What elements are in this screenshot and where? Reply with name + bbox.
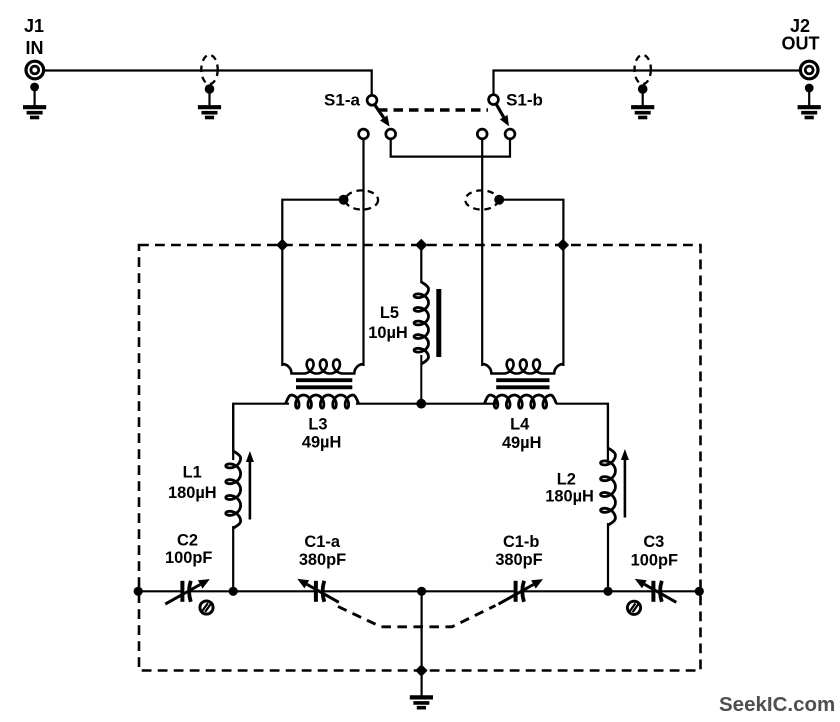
ground under left bead	[205, 84, 215, 94]
junction rail-shield left	[134, 587, 143, 596]
arrow L2	[624, 460, 627, 518]
gang dashes C1	[338, 606, 496, 627]
svg-text:OUT: OUT	[782, 33, 820, 53]
inductor L5	[414, 282, 428, 364]
svg-text:C2: C2	[177, 532, 198, 550]
inductor L2	[607, 404, 609, 449]
svg-text:L3: L3	[308, 415, 327, 433]
svg-text:S1-b: S1-b	[506, 91, 543, 110]
svg-text:380pF: 380pF	[495, 551, 542, 569]
wire J1 to S1-a	[44, 71, 372, 96]
tap wire right	[494, 195, 504, 205]
capacitor C1-b	[516, 588, 522, 594]
connector J2	[800, 61, 818, 79]
feedthrough bead left	[201, 55, 217, 84]
svg-text:J1: J1	[24, 16, 44, 36]
svg-text:S1-a: S1-a	[324, 91, 360, 110]
tap wire left	[339, 195, 349, 205]
svg-text:C1-b: C1-b	[503, 533, 539, 551]
trimmer mark C3	[627, 601, 640, 614]
wire rail right corner	[556, 404, 608, 460]
svg-text:100pF: 100pF	[165, 549, 212, 567]
junction rail center	[416, 399, 426, 409]
wire pole S1-b down	[481, 139, 483, 366]
core bar L5	[436, 289, 441, 357]
svg-text:180µH: 180µH	[545, 487, 594, 505]
shield box	[139, 245, 701, 671]
wire pole S1-a down	[362, 139, 364, 366]
feedthrough bead right	[635, 55, 651, 84]
wire center ground	[421, 591, 423, 696]
junction left top	[276, 239, 288, 251]
switch S1-a	[367, 95, 377, 105]
svg-text:C3: C3	[643, 533, 664, 551]
svg-text:L1: L1	[183, 463, 202, 481]
capacitor C1-a	[316, 588, 322, 594]
wire L5 top	[420, 245, 422, 283]
wire throw loop	[391, 139, 510, 157]
capacitor C3	[654, 588, 660, 594]
svg-text:SeekIC.com: SeekIC.com	[719, 693, 835, 716]
ground center	[410, 697, 433, 707]
ground under J1	[30, 83, 39, 92]
junction L2 bottom	[603, 587, 612, 596]
junction ground center	[417, 587, 426, 596]
core T1	[296, 378, 352, 382]
inductor L4	[484, 395, 556, 408]
svg-text:C1-a: C1-a	[304, 533, 340, 551]
gang dashes S1	[378, 108, 488, 111]
junction center top	[415, 239, 427, 251]
switch S1-b	[489, 95, 499, 105]
junction rail-shield right	[695, 587, 704, 596]
svg-text:49µH: 49µH	[502, 434, 542, 452]
ground under J2	[805, 84, 814, 93]
capacitor C2	[183, 588, 189, 594]
svg-text:L4: L4	[510, 415, 530, 433]
inductor L3	[286, 395, 359, 408]
svg-text:100pF: 100pF	[631, 552, 678, 570]
svg-text:L2: L2	[557, 471, 576, 489]
svg-text:180µH: 180µH	[168, 484, 217, 502]
svg-text:380pF: 380pF	[299, 551, 346, 569]
junction L1 bottom	[229, 587, 238, 596]
winding T2 secondary	[482, 360, 563, 374]
shield bead S1-b	[465, 190, 498, 209]
core T2	[496, 378, 549, 382]
ground under right bead	[638, 84, 648, 94]
connector J1	[26, 61, 44, 79]
inductor L1	[232, 404, 234, 452]
arrow L1	[249, 462, 252, 520]
trimmer mark C2	[200, 601, 213, 614]
shield bead S1-a	[346, 190, 379, 209]
wire rail left corner	[233, 404, 289, 460]
wire S1-b to J2	[494, 71, 801, 95]
wire rail center	[356, 403, 499, 405]
wire bottom rail	[138, 590, 700, 592]
svg-text:49µH: 49µH	[302, 434, 342, 452]
winding T1 secondary	[282, 360, 363, 374]
svg-text:IN: IN	[26, 38, 44, 58]
svg-text:10µH: 10µH	[368, 324, 408, 342]
junction right top	[557, 239, 569, 251]
junction ground-shield	[415, 664, 427, 676]
svg-text:L5: L5	[380, 304, 399, 322]
